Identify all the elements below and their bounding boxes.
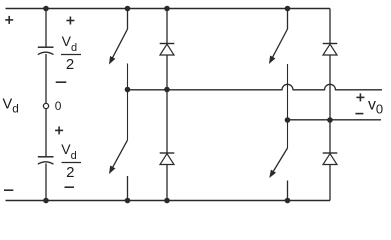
- polarity mark: + of capacitor C1: [66, 17, 74, 25]
- polarity mark: - of capacitor C1: [56, 81, 67, 83]
- fraction bar: upper Vd/2: [61, 54, 81, 56]
- svg-text:Vd: Vd: [62, 33, 77, 54]
- node 0 (DC bus midpoint terminal): [43, 103, 48, 108]
- junction dot: top rail / DA+: [164, 6, 170, 12]
- svg-text:Vd: Vd: [3, 97, 19, 116]
- svg-text:2: 2: [66, 56, 74, 73]
- wire: bottom negative DC bus rail: [6, 200, 331, 202]
- fraction bar: lower Vd/2: [62, 162, 82, 164]
- wire: leg-A midpoint output rail with crossover hops to vo+: [128, 84, 383, 89]
- diode DA- (lower-left freewheeling diode): [160, 90, 175, 201]
- polarity mark: - of output vo: [355, 113, 363, 115]
- junction dot: bottom rail / DA-: [164, 198, 170, 204]
- switch TA- (lower-left ideal switch): [109, 90, 128, 201]
- junction dot: leg-B midpoint / TB switches: [285, 117, 291, 123]
- switch TB+ (upper-right ideal switch): [269, 9, 288, 121]
- junction dot: leg-A midpoint / DA diodes: [164, 87, 170, 93]
- polarity mark: - of DC source Vd (bottom left): [4, 189, 13, 191]
- polarity mark: + of DC source Vd (top left): [5, 16, 13, 24]
- diode DB- (lower-right freewheeling diode): [323, 120, 338, 201]
- capacitor C1 (upper Vd/2): [38, 9, 54, 104]
- svg-text:0: 0: [55, 99, 62, 113]
- diode DB+ (upper-right freewheeling diode): [323, 9, 338, 121]
- svg-text:Vd: Vd: [61, 141, 76, 162]
- switch TA+ (upper-left ideal switch): [109, 9, 128, 90]
- polarity mark: + of output vo: [356, 93, 364, 101]
- junction dot: top rail / C1: [43, 6, 49, 12]
- diode DA+ (upper-left freewheeling diode): [160, 9, 175, 90]
- wire: top positive DC bus rail: [6, 8, 331, 10]
- junction dot: bottom rail / TA-: [125, 198, 131, 204]
- polarity mark: + of capacitor C2: [55, 126, 63, 134]
- svg-text:v0: v0: [368, 96, 383, 116]
- switch TB- (lower-right ideal switch): [269, 120, 287, 201]
- svg-text:2: 2: [66, 164, 74, 181]
- junction dot: top rail / TA+: [125, 6, 131, 12]
- capacitor C2 (lower Vd/2): [38, 109, 54, 201]
- junction dot: top rail / TB+: [285, 6, 291, 12]
- junction dot: leg-B midpoint / DB diodes: [327, 117, 333, 123]
- junction dot: leg-A midpoint / TA switches: [125, 87, 131, 93]
- junction dot: bottom rail / TB-: [285, 198, 291, 204]
- junction dot: bottom rail / C2: [43, 198, 49, 204]
- wire: leg-B midpoint output rail to vo-: [288, 119, 382, 121]
- polarity mark: - of capacitor C2: [65, 186, 75, 188]
